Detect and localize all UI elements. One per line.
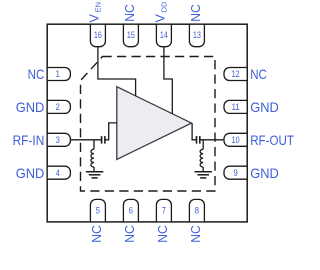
svg-text:NC: NC (123, 225, 137, 243)
svg-text:VDD: VDD (154, 1, 169, 23)
svg-text:VEN: VEN (88, 2, 103, 23)
svg-text:NC: NC (123, 4, 137, 22)
svg-text:NC: NC (189, 4, 203, 22)
svg-text:13: 13 (193, 30, 201, 40)
svg-text:15: 15 (127, 30, 135, 40)
svg-text:GND: GND (16, 99, 45, 115)
svg-text:11: 11 (232, 102, 240, 112)
svg-text:4: 4 (56, 168, 60, 178)
svg-text:14: 14 (160, 30, 168, 40)
svg-text:8: 8 (195, 205, 199, 215)
svg-text:RF-OUT: RF-OUT (250, 132, 294, 148)
svg-text:6: 6 (129, 205, 133, 215)
svg-text:GND: GND (16, 165, 45, 181)
svg-text:10: 10 (232, 135, 240, 145)
svg-text:NC: NC (156, 225, 170, 243)
svg-text:5: 5 (96, 205, 100, 215)
svg-text:3: 3 (56, 135, 60, 145)
svg-text:1: 1 (56, 69, 60, 79)
svg-text:RF-IN: RF-IN (13, 132, 45, 148)
svg-text:GND: GND (250, 99, 279, 115)
svg-text:7: 7 (162, 205, 166, 215)
svg-text:NC: NC (28, 66, 45, 82)
svg-text:16: 16 (94, 30, 102, 40)
svg-text:GND: GND (250, 165, 279, 181)
svg-text:12: 12 (232, 69, 240, 79)
svg-text:NC: NC (189, 225, 203, 243)
svg-text:9: 9 (234, 168, 238, 178)
svg-text:NC: NC (90, 225, 104, 243)
svg-text:NC: NC (250, 66, 267, 82)
svg-text:2: 2 (56, 102, 60, 112)
